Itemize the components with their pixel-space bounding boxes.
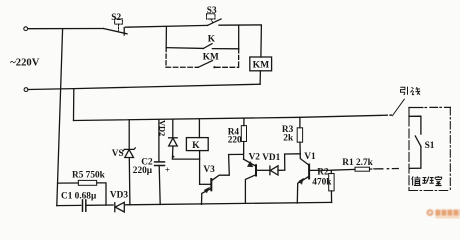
svg-text:220: 220 — [228, 136, 242, 146]
svg-text:V3: V3 — [203, 165, 215, 175]
svg-text:2k: 2k — [283, 134, 294, 144]
svg-text:~220V: ~220V — [10, 57, 39, 68]
svg-text:R1 2.7k: R1 2.7k — [342, 158, 373, 168]
svg-text:VD3: VD3 — [110, 191, 128, 201]
svg-text:KM: KM — [253, 60, 270, 71]
svg-text:C1 0.68μ: C1 0.68μ — [61, 192, 97, 202]
svg-text:V2: V2 — [249, 153, 261, 163]
svg-text:470k: 470k — [312, 177, 332, 187]
svg-text:VD1: VD1 — [262, 153, 280, 163]
svg-text:R5 750k: R5 750k — [72, 171, 106, 181]
svg-text:R2: R2 — [317, 167, 329, 177]
svg-text:KM: KM — [203, 53, 219, 63]
svg-text:K: K — [192, 140, 200, 151]
svg-text:VS: VS — [112, 149, 124, 159]
svg-text:S3: S3 — [207, 6, 217, 16]
svg-text:V1: V1 — [304, 152, 316, 162]
svg-text:K: K — [208, 34, 216, 44]
svg-text:S2: S2 — [111, 13, 121, 23]
svg-text:S1: S1 — [425, 141, 435, 151]
svg-text:VD2: VD2 — [158, 120, 167, 136]
svg-text:220μ: 220μ — [133, 166, 153, 176]
svg-text:+: + — [165, 165, 170, 175]
